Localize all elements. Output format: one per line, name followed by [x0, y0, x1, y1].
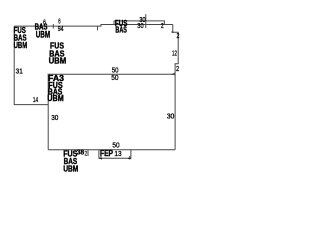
svg-text:2: 2: [161, 21, 164, 30]
svg-text:31: 31: [16, 67, 23, 76]
svg-text:UBM: UBM: [63, 165, 78, 174]
svg-text:2: 2: [177, 31, 180, 40]
svg-text:UBM: UBM: [47, 94, 64, 103]
svg-text:30: 30: [167, 112, 175, 121]
svg-text:6: 6: [43, 17, 46, 26]
svg-text:2: 2: [85, 151, 88, 158]
svg-text:4: 4: [128, 156, 131, 162]
svg-text:2: 2: [176, 64, 179, 73]
svg-text:30: 30: [51, 113, 58, 122]
svg-text:6: 6: [58, 17, 60, 26]
svg-text:UBM: UBM: [14, 41, 28, 50]
svg-text:BAS: BAS: [115, 26, 127, 35]
svg-text:50: 50: [111, 73, 118, 82]
svg-text:14: 14: [33, 95, 38, 104]
svg-text:13: 13: [114, 149, 121, 158]
svg-text:UBM: UBM: [36, 30, 50, 40]
svg-text:FEP: FEP: [100, 149, 114, 158]
svg-text:4: 4: [99, 156, 102, 162]
svg-text:30: 30: [137, 21, 143, 30]
svg-text:UBM: UBM: [49, 56, 67, 65]
svg-text:12: 12: [172, 49, 177, 58]
svg-text:38: 38: [77, 147, 85, 156]
